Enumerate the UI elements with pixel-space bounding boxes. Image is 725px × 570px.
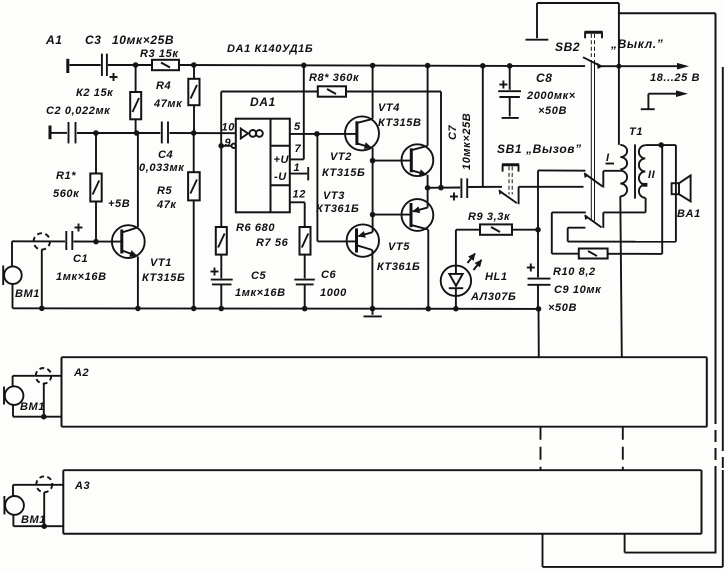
switch SB2 pole B arm and contact xyxy=(584,212,603,228)
minus arrow head xyxy=(676,90,688,97)
supply arrow head xyxy=(677,63,689,70)
wire pole B pivot from R10 node xyxy=(552,212,586,253)
switch SB2 button xyxy=(584,32,602,38)
svg-text:С1: С1 xyxy=(73,253,88,265)
svg-text:VT1: VT1 xyxy=(150,257,172,269)
pin 5 output stub xyxy=(290,131,320,137)
enclosure right edge xyxy=(715,13,717,552)
svg-text:SB1 „Вызов”: SB1 „Вызов” xyxy=(497,142,582,156)
node A1 input terminal xyxy=(66,59,69,73)
svg-text:A2: A2 xyxy=(73,367,89,379)
svg-text:1000: 1000 xyxy=(320,287,347,299)
svg-text:1мк×16В: 1мк×16В xyxy=(56,271,107,283)
svg-text:С8: С8 xyxy=(536,71,553,85)
wire output node to C7 xyxy=(428,187,461,189)
wire line node up and to SB2 pole A xyxy=(538,170,585,229)
junction dot rail crossing xyxy=(616,64,621,69)
svg-text:КТ315В: КТ315В xyxy=(378,117,422,129)
resistor R4 vertical xyxy=(188,65,199,133)
junction dot output node xyxy=(425,185,431,191)
resistor R10 xyxy=(552,249,662,259)
top left corner feed with terminal bar xyxy=(526,3,619,40)
transformer T1 winding I xyxy=(620,145,627,196)
switch SB2 pole A arm and contact xyxy=(584,171,604,188)
svg-text:С9 10мк: С9 10мк xyxy=(554,284,602,296)
wire winding II top to speaker xyxy=(645,145,676,242)
wires A2 mic to box xyxy=(13,376,62,417)
transistor VT1 xyxy=(96,133,145,308)
wire top rail R3 to SB2 xyxy=(179,65,585,66)
transistor VT5 xyxy=(402,188,434,309)
junction dots on bottom rail xyxy=(39,306,45,312)
bottom common rail xyxy=(13,307,539,310)
capacitor C9 xyxy=(527,230,551,309)
junction dot R2 top xyxy=(133,62,139,68)
junction dot VT3 emitter node xyxy=(370,212,376,218)
svg-text:R5: R5 xyxy=(157,185,173,197)
capacitor C4 xyxy=(162,122,168,144)
pin 12 stub xyxy=(290,202,305,227)
junction dot R9 right xyxy=(535,227,541,233)
svg-text:2000мк×: 2000мк× xyxy=(526,90,576,102)
bus wire A3 bottom right down xyxy=(625,534,717,553)
wire pole B contact to winding II bottom xyxy=(603,198,645,213)
node C2 input terminal xyxy=(49,126,52,140)
junction dots on top rail xyxy=(191,62,197,68)
microphone BM1 of A2 xyxy=(4,376,23,417)
wire SB1 contact to line node xyxy=(519,186,584,188)
svg-text:VT4: VT4 xyxy=(378,102,400,114)
bus line wire down from rail node xyxy=(538,309,540,357)
wire C3 to R3 xyxy=(108,64,152,66)
pole B lower contact to speaker line xyxy=(568,228,586,242)
wire2 C2 to C4 xyxy=(77,132,160,134)
svg-text:КТ315Б: КТ315Б xyxy=(322,167,365,179)
svg-text:КТ361Б: КТ361Б xyxy=(377,261,420,273)
svg-text:47мк: 47мк xyxy=(153,98,183,110)
svg-text:1: 1 xyxy=(294,162,301,174)
wire input to C3 xyxy=(70,64,101,66)
capacitor C1 xyxy=(66,224,82,251)
transistor VT4 xyxy=(402,66,434,188)
svg-text:×50В: ×50В xyxy=(548,302,577,314)
transistor VT2 xyxy=(345,66,379,161)
svg-text:DA1 К140УД1Б: DA1 К140УД1Б xyxy=(227,43,313,55)
wire pole A contact to winding I tap xyxy=(603,170,620,172)
switch SB1 button xyxy=(502,165,519,195)
switch SB1 contact arm xyxy=(499,187,519,205)
unit block A2 xyxy=(62,357,707,427)
resistor R3 xyxy=(152,60,179,70)
svg-text:10мк×25В: 10мк×25В xyxy=(461,113,473,170)
svg-text:-U: -U xyxy=(274,171,287,183)
svg-text:DA1: DA1 xyxy=(250,95,276,109)
svg-text:5: 5 xyxy=(294,121,301,133)
svg-text:A1: A1 xyxy=(45,33,63,47)
svg-text:+5В: +5В xyxy=(108,198,130,210)
transformer T1 winding II xyxy=(639,145,647,197)
svg-text:R9 3,3к: R9 3,3к xyxy=(468,211,511,223)
svg-text:C3: C3 xyxy=(85,33,102,47)
svg-text:С6: С6 xyxy=(321,269,337,281)
svg-text:VT5: VT5 xyxy=(388,241,410,253)
svg-text:9: 9 xyxy=(225,137,232,149)
svg-text:R7 56: R7 56 xyxy=(256,237,289,249)
wire mic to C1 to VT1 base xyxy=(12,240,96,242)
connector jack X1 (dashed circle) xyxy=(34,233,50,308)
svg-text:I: I xyxy=(606,152,610,164)
resistor R9 xyxy=(456,224,538,234)
svg-text:АЛ307Б: АЛ307Б xyxy=(470,291,516,303)
pin 9 with inversion circle xyxy=(218,143,236,149)
svg-text:×50В: ×50В xyxy=(538,105,567,117)
pin 1 stub with end bar xyxy=(290,167,308,180)
outer bus right xyxy=(722,67,724,567)
svg-text:С5: С5 xyxy=(251,270,267,282)
wires A3 mic to box xyxy=(13,485,63,526)
svg-text:A3: A3 xyxy=(74,480,90,492)
svg-text:C2 0,022мк: C2 0,022мк xyxy=(46,105,111,117)
LED HL1 xyxy=(441,230,482,309)
wire C7 to SB1 pole xyxy=(468,186,502,188)
wire SB2 to supply arrow xyxy=(601,65,678,67)
svg-text:R1*: R1* xyxy=(56,170,76,182)
wire pin5 down to VT3 base xyxy=(317,134,356,242)
svg-text:560к: 560к xyxy=(53,188,80,200)
bus wire A3 bottom left down xyxy=(543,534,723,567)
capacitor C3 xyxy=(102,54,118,81)
microphone BM1 of A3 xyxy=(4,485,24,526)
supply minus arrow with terminal bar xyxy=(641,94,677,110)
op-amp DA1 body xyxy=(236,119,290,213)
SB2 mechanical link lines xyxy=(591,34,594,221)
svg-text:HL1: HL1 xyxy=(485,271,508,283)
switch SB2 top pole arm xyxy=(583,57,603,69)
capacitor C8 xyxy=(498,66,521,118)
jack of A2 xyxy=(36,368,52,420)
svg-text:12: 12 xyxy=(293,189,306,201)
svg-text:R6 680: R6 680 xyxy=(236,222,275,234)
wire top vertical to transformer xyxy=(618,3,620,145)
wire VT2e to VT4 base xyxy=(373,160,412,162)
svg-text:С4: С4 xyxy=(158,149,173,161)
svg-text:К2 15к: К2 15к xyxy=(76,87,114,99)
svg-text:1мк×16В: 1мк×16В xyxy=(235,287,286,299)
svg-text:BM1: BM1 xyxy=(20,401,45,413)
svg-text:7: 7 xyxy=(295,143,302,155)
junction dot R8 tap xyxy=(438,185,444,191)
wire node to VT5 base xyxy=(373,214,411,216)
capacitor C7 xyxy=(450,178,467,200)
wire R8 to output node xyxy=(346,92,441,188)
junction dots on wire2 xyxy=(93,130,99,136)
capacitor C6 xyxy=(294,255,315,309)
junction dot VT2 emitter node xyxy=(370,158,376,164)
speaker return line xyxy=(568,241,676,243)
svg-text:R3 15к: R3 15к xyxy=(140,48,179,60)
svg-text:10мк×25В: 10мк×25В xyxy=(112,33,174,47)
bus line wire down from winding I xyxy=(620,196,622,357)
svg-text:VT2: VT2 xyxy=(330,151,352,163)
svg-text:С7: С7 xyxy=(447,124,459,140)
svg-text:VT3: VT3 xyxy=(323,190,345,202)
transistor VT3 xyxy=(347,215,379,309)
svg-text:0,033мк: 0,033мк xyxy=(139,162,185,174)
svg-text:R8* 360к: R8* 360к xyxy=(309,72,360,84)
jack of A3 xyxy=(36,476,52,529)
ground symbol xyxy=(364,309,382,317)
resistor R7 xyxy=(300,227,311,255)
resistor R2 vertical xyxy=(130,65,141,133)
capacitor C2 xyxy=(52,122,76,143)
unit block A3 xyxy=(63,470,701,534)
resistor R8 xyxy=(318,86,346,96)
svg-text:SB2: SB2 xyxy=(555,40,580,54)
svg-text:R10 8,2: R10 8,2 xyxy=(553,266,596,278)
svg-text:+U: +U xyxy=(274,154,290,166)
feedback wire pin9 to R8 xyxy=(221,92,318,146)
svg-text:BA1: BA1 xyxy=(677,208,701,220)
resistor R1 vertical xyxy=(90,133,101,242)
pin 7 supply stub from top rail xyxy=(290,65,304,159)
enclosure top edge xyxy=(619,12,716,14)
capacitor C5 xyxy=(211,255,233,309)
svg-text:T1: T1 xyxy=(629,126,643,138)
microphone BM1 xyxy=(3,241,22,308)
resistor R5 vertical xyxy=(188,133,200,308)
svg-text:КТ361Б: КТ361Б xyxy=(316,203,359,215)
junction dot VT1 base xyxy=(93,239,99,245)
svg-text:BM1: BM1 xyxy=(15,288,40,300)
svg-text:47к: 47к xyxy=(156,199,177,211)
wire R10 right up to winding II top node xyxy=(661,145,663,254)
wire top rail down to SB1 xyxy=(482,66,484,187)
bus dashes between A2 and A3 xyxy=(541,427,623,471)
svg-text:18...25 В: 18...25 В xyxy=(650,72,700,84)
wire pin5 to VT2 base xyxy=(317,133,357,135)
svg-text:КТ315Б: КТ315Б xyxy=(142,272,185,284)
resistor R6 xyxy=(216,148,227,255)
junction dot winding II top xyxy=(658,142,664,148)
wire down to VT5 base node xyxy=(372,161,374,215)
svg-text:10: 10 xyxy=(222,122,236,134)
speaker BA1 xyxy=(672,175,691,201)
transformer T1 core xyxy=(634,144,636,198)
svg-text:II: II xyxy=(648,169,656,181)
wire2 C4 to DA1 pin10 xyxy=(170,132,236,134)
svg-text:R4: R4 xyxy=(156,80,171,92)
